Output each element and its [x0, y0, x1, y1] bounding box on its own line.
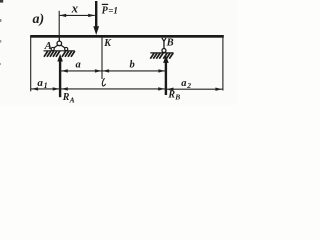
right end extension line — [222, 37, 224, 91]
svg-text:x: x — [71, 2, 78, 16]
svg-text:2: 2 — [186, 81, 191, 90]
support B (roller) — [162, 38, 166, 53]
node K extension line — [101, 38, 103, 79]
svg-text:b: b — [130, 60, 135, 71]
left end extension line — [30, 36, 32, 91]
svg-text:R: R — [62, 92, 70, 103]
scan artifact top-left edge — [0, 0, 3, 3]
support A ground hatching — [44, 51, 75, 57]
support B ground line — [150, 52, 173, 54]
scan artifact left edge dots — [0, 19, 1, 22]
support B ground hatching — [150, 53, 173, 59]
svg-text:K: K — [103, 38, 112, 49]
svg-text:=1: =1 — [108, 5, 118, 15]
dimension line x — [60, 14, 95, 16]
dimension a line — [60, 70, 102, 72]
dimension a2 line — [166, 88, 223, 90]
support A ground line — [44, 50, 75, 52]
svg-text:R: R — [167, 89, 175, 100]
svg-text:B: B — [174, 93, 180, 102]
dimension x extension line over support A — [58, 11, 60, 35]
svg-text:a: a — [76, 60, 81, 71]
svg-text:A: A — [69, 95, 75, 104]
dimension a1 line — [31, 88, 60, 90]
svg-text:a: a — [181, 78, 186, 89]
support A (pin) — [51, 38, 68, 51]
force P=1 arrow — [95, 1, 97, 29]
svg-text:1: 1 — [44, 81, 48, 90]
svg-text:a: a — [37, 77, 43, 89]
reaction R_A arrow — [59, 59, 61, 98]
dimension l line — [60, 88, 166, 90]
svg-text:B: B — [166, 37, 174, 48]
svg-text:A: A — [44, 40, 52, 52]
svg-text:а): а) — [33, 12, 45, 27]
reaction R_B arrow — [165, 60, 167, 95]
label l (script ell) — [102, 78, 105, 86]
dimension b line — [102, 70, 166, 72]
beam — [30, 35, 224, 38]
